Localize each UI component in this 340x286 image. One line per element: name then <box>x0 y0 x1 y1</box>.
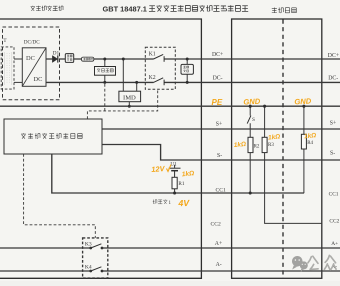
svg-text:S: S <box>252 117 255 123</box>
svg-text:CC2: CC2 <box>329 218 339 224</box>
header label off-board charger (6 CJK glyphs) <box>31 6 63 11</box>
svg-text:A+: A+ <box>331 241 338 247</box>
svg-text:S-: S- <box>217 153 222 159</box>
wire R4 branch PE to CC1 end <box>303 106 305 193</box>
resistor R2 <box>248 137 253 152</box>
wire IMD to DC- <box>136 82 138 91</box>
diode D1 <box>52 56 57 63</box>
wire S/R2 branch PE to CC1 <box>249 106 251 193</box>
resistor R1 <box>172 177 177 189</box>
svg-text:S+: S+ <box>216 122 223 128</box>
stub voltmeter to DC- <box>186 74 188 82</box>
junction dot DC- discharge <box>103 81 106 84</box>
wire T to DC/DC upper <box>14 58 22 60</box>
svg-text:CC2: CC2 <box>211 221 221 227</box>
svg-text:1kΩ: 1kΩ <box>181 170 195 178</box>
wire T to DC/DC lower <box>14 81 22 83</box>
svg-text:4V: 4V <box>177 198 190 208</box>
wire PE <box>0 105 340 107</box>
vehicle-side outer box <box>232 19 322 278</box>
svg-text:S-: S- <box>330 151 335 157</box>
junction dot voltmeter DC+ <box>186 58 189 61</box>
contactor K3/K4 dashed box <box>83 238 108 278</box>
IMD box <box>119 91 141 102</box>
svg-text:GND: GND <box>243 97 261 107</box>
wire DC- bus <box>46 81 340 83</box>
wire DC+ bus <box>46 58 340 60</box>
svg-text:12V: 12V <box>151 164 166 174</box>
wire R3 branch PE to CC2 <box>265 106 322 223</box>
junction dot DC- IMD <box>135 81 138 84</box>
discharge circuit box (4 CJK) <box>95 67 116 76</box>
junction dot voltmeter DC- <box>186 81 189 84</box>
svg-text:GND: GND <box>294 96 312 106</box>
switch K2 blade <box>154 78 164 83</box>
dashed enclosure power module <box>3 27 60 100</box>
watermark wechat icon <box>292 256 308 272</box>
svg-text:R1: R1 <box>178 181 184 187</box>
svg-text:S+: S+ <box>330 121 337 127</box>
resistor R4 <box>301 134 306 149</box>
wire IMD to DC+ <box>122 59 124 91</box>
svg-text:A+: A+ <box>215 241 222 247</box>
junction dot PE IMD <box>128 105 131 108</box>
junction dot CC1 R1 <box>173 191 176 194</box>
svg-text:R3: R3 <box>268 143 274 148</box>
watermark glyph zhong <box>324 255 336 270</box>
svg-text:K3: K3 <box>85 241 92 247</box>
voltage measurement box (charger side) <box>65 54 73 63</box>
resistor R3 <box>262 137 267 152</box>
dashed control line to K3/K4 <box>24 154 96 238</box>
wire R1 to CC1 <box>174 189 176 193</box>
switch K4 <box>89 270 92 273</box>
svg-text:PE: PE <box>212 98 223 107</box>
svg-text:A-: A- <box>216 262 222 268</box>
switch K3 <box>89 247 92 250</box>
svg-text:1kΩ: 1kΩ <box>304 132 317 140</box>
wire A- <box>0 270 340 272</box>
junction dot CC1 R2 <box>249 191 252 194</box>
svg-text:1kΩ: 1kΩ <box>234 141 247 149</box>
stub discharge to DC- <box>104 75 106 82</box>
wire CC1 from controller <box>52 154 304 193</box>
svg-text:CC1: CC1 <box>216 187 226 193</box>
svg-text:DC-: DC- <box>328 76 338 82</box>
svg-text:T: T <box>3 38 7 44</box>
voltage measurement box (outlet side) <box>181 64 193 74</box>
svg-text:D1: D1 <box>53 51 60 57</box>
stub voltmeter to DC+ <box>186 59 188 64</box>
wire S+ <box>102 128 340 130</box>
svg-text:R2: R2 <box>254 145 260 150</box>
dashed control line to K1/K2 and discharge circuit <box>87 84 157 119</box>
wire S- with staircase from controller <box>102 145 340 161</box>
charger controller box <box>4 119 102 154</box>
junction dot PE R3 <box>263 105 266 108</box>
transformer T dashed box <box>1 47 14 89</box>
wire A+ <box>0 247 340 249</box>
junction dot PE R4 <box>302 105 305 108</box>
svg-text:DC: DC <box>34 76 43 83</box>
vehicle interface dashed separation line <box>282 20 284 279</box>
wire IMD to PE <box>128 102 130 107</box>
svg-text:IMD: IMD <box>123 95 136 102</box>
label detection point 1 (3 CJK + 1) <box>153 200 168 204</box>
watermark glyph gong <box>308 256 318 269</box>
svg-text:1kΩ: 1kΩ <box>268 133 281 141</box>
stub discharge to DC+ <box>104 59 106 67</box>
current measurement pill box <box>82 57 94 61</box>
svg-text:DC+: DC+ <box>212 52 223 58</box>
svg-text:R4: R4 <box>307 141 313 146</box>
svg-text:U1: U1 <box>170 162 177 168</box>
svg-text:DC+: DC+ <box>328 53 339 59</box>
contactor K1/K2 dashed box <box>145 47 175 89</box>
charger controller label (9 CJK) <box>21 133 82 138</box>
off-board-charger outer box (left, open at image edge) <box>0 19 201 278</box>
svg-text:K1: K1 <box>149 51 156 57</box>
header label vehicle interface (4 CJK glyphs) <box>272 8 297 13</box>
page shade bottom edge <box>0 281 340 286</box>
svg-text:DC/DC: DC/DC <box>24 39 40 45</box>
transformer windings <box>5 52 12 85</box>
switch K1 blade <box>154 54 164 59</box>
svg-text:DC: DC <box>26 55 35 62</box>
DC/DC converter box <box>22 48 46 87</box>
junction dot PE S-branch <box>249 105 252 108</box>
svg-text:GBT 18487.1: GBT 18487.1 <box>103 4 147 13</box>
voltage source U1 12V <box>174 165 176 168</box>
svg-text:K2: K2 <box>149 75 156 81</box>
switch S blade <box>247 116 251 124</box>
junction dot DC+ discharge <box>103 58 106 61</box>
svg-text:CC1: CC1 <box>329 192 339 198</box>
svg-text:DC-: DC- <box>213 76 223 82</box>
junction dot DC+ IMD <box>122 58 125 61</box>
